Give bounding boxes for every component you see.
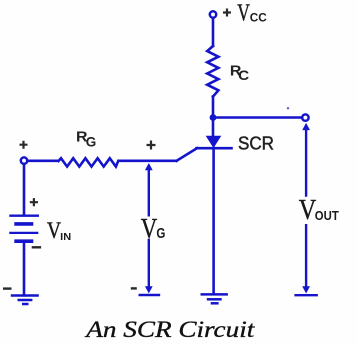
svg-text:G: G: [86, 135, 97, 150]
svg-text:V: V: [299, 194, 317, 226]
svg-text:CC: CC: [250, 13, 267, 25]
svg-text:V: V: [237, 0, 250, 27]
svg-text:V: V: [47, 218, 61, 244]
svg-text:OUT: OUT: [315, 208, 339, 223]
svg-text:An SCR Circuit: An SCR Circuit: [84, 317, 255, 342]
svg-text:SCR: SCR: [238, 133, 274, 154]
svg-text:C: C: [238, 68, 249, 83]
svg-text:IN: IN: [60, 232, 71, 243]
svg-text:V: V: [141, 213, 158, 245]
svg-text:G: G: [156, 226, 165, 242]
